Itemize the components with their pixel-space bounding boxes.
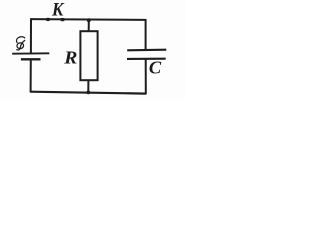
svg-text:C: C: [149, 58, 162, 78]
resistor R box: [80, 31, 97, 80]
wire left lower (battery to bottom corner): [30, 59, 32, 92]
wire left upper (corner to battery): [30, 18, 32, 53]
wire middle lower (resistor R to bottom wire): [87, 80, 89, 92]
junction node bottom: [86, 91, 90, 95]
wire top (switch branch): [31, 18, 146, 21]
capacitor C bottom plate: [127, 58, 166, 60]
svg-text:K: K: [51, 0, 65, 20]
wire bottom: [31, 92, 146, 94]
switch K contact dot right: [60, 18, 65, 21]
wire right lower (capacitor to bottom corner): [145, 59, 147, 95]
wire middle upper (top wire to resistor R): [88, 20, 90, 32]
label EMF script-E symbol: [16, 37, 24, 50]
capacitor C top plate: [127, 49, 166, 52]
battery EMF long plate: [12, 52, 49, 54]
battery EMF short plate: [21, 58, 41, 60]
wire right upper (corner to capacitor): [145, 19, 147, 50]
svg-text:R: R: [63, 48, 77, 68]
switch K contact dot left: [46, 18, 51, 21]
junction node top: [87, 18, 91, 22]
